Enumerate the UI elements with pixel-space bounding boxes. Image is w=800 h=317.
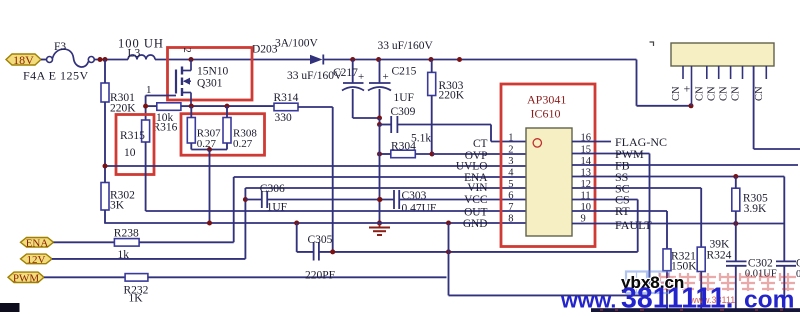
- capacitor C309: [377, 92, 491, 133]
- svg-text:3811111.: 3811111.: [621, 283, 734, 313]
- node ENA label: [21, 237, 54, 249]
- connector pin 2 wire: [691, 66, 693, 106]
- svg-text:10: 10: [124, 147, 136, 159]
- wire top rail D203 to corner: [324, 57, 637, 62]
- resistor R307: [187, 106, 221, 150]
- svg-text:VCC: VCC: [464, 194, 487, 206]
- svg-text:220K: 220K: [439, 90, 465, 102]
- inductor L3: [118, 37, 164, 60]
- transistor Q301: [176, 48, 229, 107]
- wire FB pin14: [572, 159, 798, 173]
- svg-text:C215: C215: [392, 66, 417, 78]
- svg-text:L3: L3: [128, 48, 141, 60]
- svg-text:UVLO: UVLO: [456, 160, 488, 172]
- highlight box Q301: [168, 48, 253, 101]
- fuse F3: [23, 41, 94, 83]
- wire PWM pin15: [572, 147, 650, 295]
- capacitor C303: [378, 190, 527, 215]
- svg-text:C306: C306: [260, 183, 285, 195]
- wire UVLO net: [103, 164, 527, 169]
- svg-text:R314: R314: [274, 92, 299, 104]
- wire VIN net: [243, 188, 526, 259]
- resistor R314: [274, 92, 299, 124]
- wire R314 down to C305 line: [298, 107, 333, 252]
- svg-text:C303: C303: [402, 190, 427, 202]
- svg-text:3.9K: 3.9K: [744, 203, 767, 215]
- svg-text:PWM: PWM: [13, 273, 40, 285]
- IC pin numbers right 16-9: [581, 132, 592, 224]
- resistor R324: [697, 239, 731, 313]
- ground: [369, 223, 390, 235]
- svg-text:CN: CN: [707, 86, 718, 101]
- svg-text:R315: R315: [120, 130, 145, 142]
- watermark ybx8.cn: [621, 273, 684, 292]
- svg-text:R324: R324: [707, 250, 732, 262]
- svg-text:5: 5: [508, 179, 513, 190]
- bottom dark bar right: [591, 308, 800, 312]
- highlight box R315: [116, 115, 154, 175]
- svg-text:1UF: 1UF: [394, 92, 414, 104]
- svg-text:100 UH: 100 UH: [118, 37, 164, 51]
- node 12V label: [21, 254, 53, 266]
- wire 12V net: [52, 258, 245, 260]
- svg-text:220PF: 220PF: [305, 270, 335, 282]
- wire FAULT pin9: [572, 218, 784, 232]
- resistor R301: [101, 60, 136, 167]
- svg-text:330: 330: [275, 112, 293, 124]
- wire RT pin10: [572, 204, 667, 249]
- svg-text:ENA: ENA: [26, 237, 49, 249]
- svg-text:Q301: Q301: [197, 78, 223, 90]
- svg-text:F3: F3: [54, 41, 66, 53]
- svg-text:OUT: OUT: [464, 207, 487, 219]
- svg-text:3K: 3K: [110, 200, 125, 212]
- svg-text:com: com: [744, 287, 794, 313]
- connector pin 7 wire: [754, 66, 800, 149]
- svg-text:4: 4: [508, 167, 514, 178]
- svg-text:C309: C309: [391, 106, 416, 118]
- wire OVP net: [432, 153, 526, 155]
- svg-text:150K: 150K: [671, 261, 697, 273]
- svg-text:FAULT: FAULT: [615, 218, 652, 232]
- watermark red small url: [689, 295, 735, 305]
- svg-text:2: 2: [508, 144, 513, 155]
- svg-text:39K: 39K: [710, 239, 731, 251]
- connector pin labels: [671, 82, 765, 102]
- svg-text:6: 6: [508, 190, 513, 201]
- highlight box IC610: [501, 84, 595, 247]
- capacitor C306: [245, 183, 394, 214]
- svg-text:0.27: 0.27: [233, 138, 253, 150]
- resistor R232: [44, 274, 447, 305]
- svg-text:0.27: 0.27: [197, 138, 217, 150]
- wire CS pin11: [572, 193, 638, 252]
- watermark big url: [560, 283, 794, 315]
- svg-text:220K: 220K: [110, 103, 136, 115]
- wire CT step: [491, 125, 526, 142]
- svg-text:AP3041: AP3041: [527, 93, 566, 107]
- resistor R315: [120, 120, 150, 211]
- capacitor C302: [726, 224, 777, 313]
- svg-text:0.47UF: 0.47UF: [402, 203, 437, 215]
- wire 18V to fuse: [41, 59, 47, 61]
- svg-text:3: 3: [508, 156, 513, 167]
- resistor R308: [223, 106, 257, 150]
- bottom dark box left: [0, 303, 20, 312]
- wire GND net: [104, 221, 526, 226]
- resistor R316: [146, 103, 192, 134]
- resistor R304: [377, 133, 435, 158]
- svg-text:+: +: [684, 82, 691, 96]
- resistor R321: [663, 249, 697, 312]
- svg-text:CN: CN: [754, 86, 765, 101]
- svg-text:1K: 1K: [129, 293, 144, 305]
- resistor R238: [54, 228, 234, 262]
- svg-text:CN: CN: [730, 86, 741, 101]
- svg-text:+: +: [358, 71, 364, 83]
- svg-text:1: 1: [146, 84, 152, 96]
- IC pin numbers left 1-8: [508, 132, 514, 224]
- node PWM label: [8, 272, 44, 285]
- wire gate to node 1: [146, 84, 176, 120]
- svg-text:F4A E 125V: F4A E 125V: [23, 69, 89, 83]
- IC U610 AP3041 IC610 body: [526, 93, 572, 237]
- wire OUT net: [146, 210, 526, 212]
- svg-text:+: +: [383, 71, 389, 83]
- capacitor C30x right edge: [776, 258, 800, 281]
- svg-text:D203: D203: [252, 44, 278, 56]
- svg-text:33 uF/160V: 33 uF/160V: [287, 70, 343, 82]
- wire PWM return: [449, 223, 650, 295]
- watermark chinese red characters: [660, 273, 796, 291]
- wire FLAG-NC stub: [572, 135, 667, 149]
- svg-text:IC610: IC610: [531, 107, 561, 121]
- capacitor C305: [297, 223, 335, 282]
- svg-text:5.1k: 5.1k: [411, 133, 431, 145]
- svg-text:VIN: VIN: [467, 182, 487, 194]
- wire SS pin13: [572, 170, 784, 312]
- svg-text:RT: RT: [615, 204, 630, 218]
- svg-text:CN: CN: [695, 86, 706, 101]
- resistor R305: [732, 177, 768, 224]
- svg-text:C: C: [796, 258, 800, 270]
- wire rail down to connector: [637, 60, 694, 109]
- svg-text:GND: GND: [463, 218, 488, 230]
- wire C305 to CS: [319, 249, 638, 254]
- svg-text:1: 1: [508, 132, 513, 143]
- resistor R303: [428, 60, 465, 155]
- watermark blue boxes: [626, 272, 669, 294]
- highlight box R307 R308: [181, 114, 265, 156]
- resistor R302: [101, 166, 135, 223]
- svg-text:CN: CN: [718, 86, 729, 101]
- artifact tick: [650, 42, 654, 46]
- svg-text:R316: R316: [153, 122, 178, 134]
- svg-text:12V: 12V: [27, 254, 46, 266]
- wire fuse to L3: [94, 57, 128, 62]
- svg-text:CN: CN: [671, 86, 682, 101]
- svg-text:18V: 18V: [13, 53, 34, 67]
- capacitor C217: [287, 60, 380, 119]
- IC left pin names: [456, 138, 488, 230]
- svg-text:33 uF/160V: 33 uF/160V: [378, 40, 434, 52]
- wire R307 R308 bottoms to GND line: [191, 143, 227, 223]
- wire ENA net: [234, 177, 526, 242]
- wire top rail L3 to D203: [155, 57, 310, 62]
- svg-text:0: 0: [796, 269, 800, 280]
- svg-text:7: 7: [508, 202, 513, 213]
- capacitor C215: [368, 40, 433, 121]
- diode D203: [252, 38, 323, 65]
- svg-text:CT: CT: [473, 138, 488, 150]
- wire SC pin12: [572, 182, 701, 248]
- wire vertical C215 branch: [377, 125, 382, 226]
- svg-text:3A/100V: 3A/100V: [275, 38, 319, 50]
- node 18V input label: [6, 53, 41, 67]
- svg-text:15N10: 15N10: [197, 66, 229, 78]
- svg-text:8: 8: [508, 213, 513, 224]
- svg-text:C305: C305: [308, 234, 333, 246]
- svg-text:R238: R238: [114, 228, 139, 240]
- svg-text:2: 2: [181, 48, 192, 53]
- wire node 1 bus: [143, 104, 274, 109]
- connector CN: [671, 43, 774, 79]
